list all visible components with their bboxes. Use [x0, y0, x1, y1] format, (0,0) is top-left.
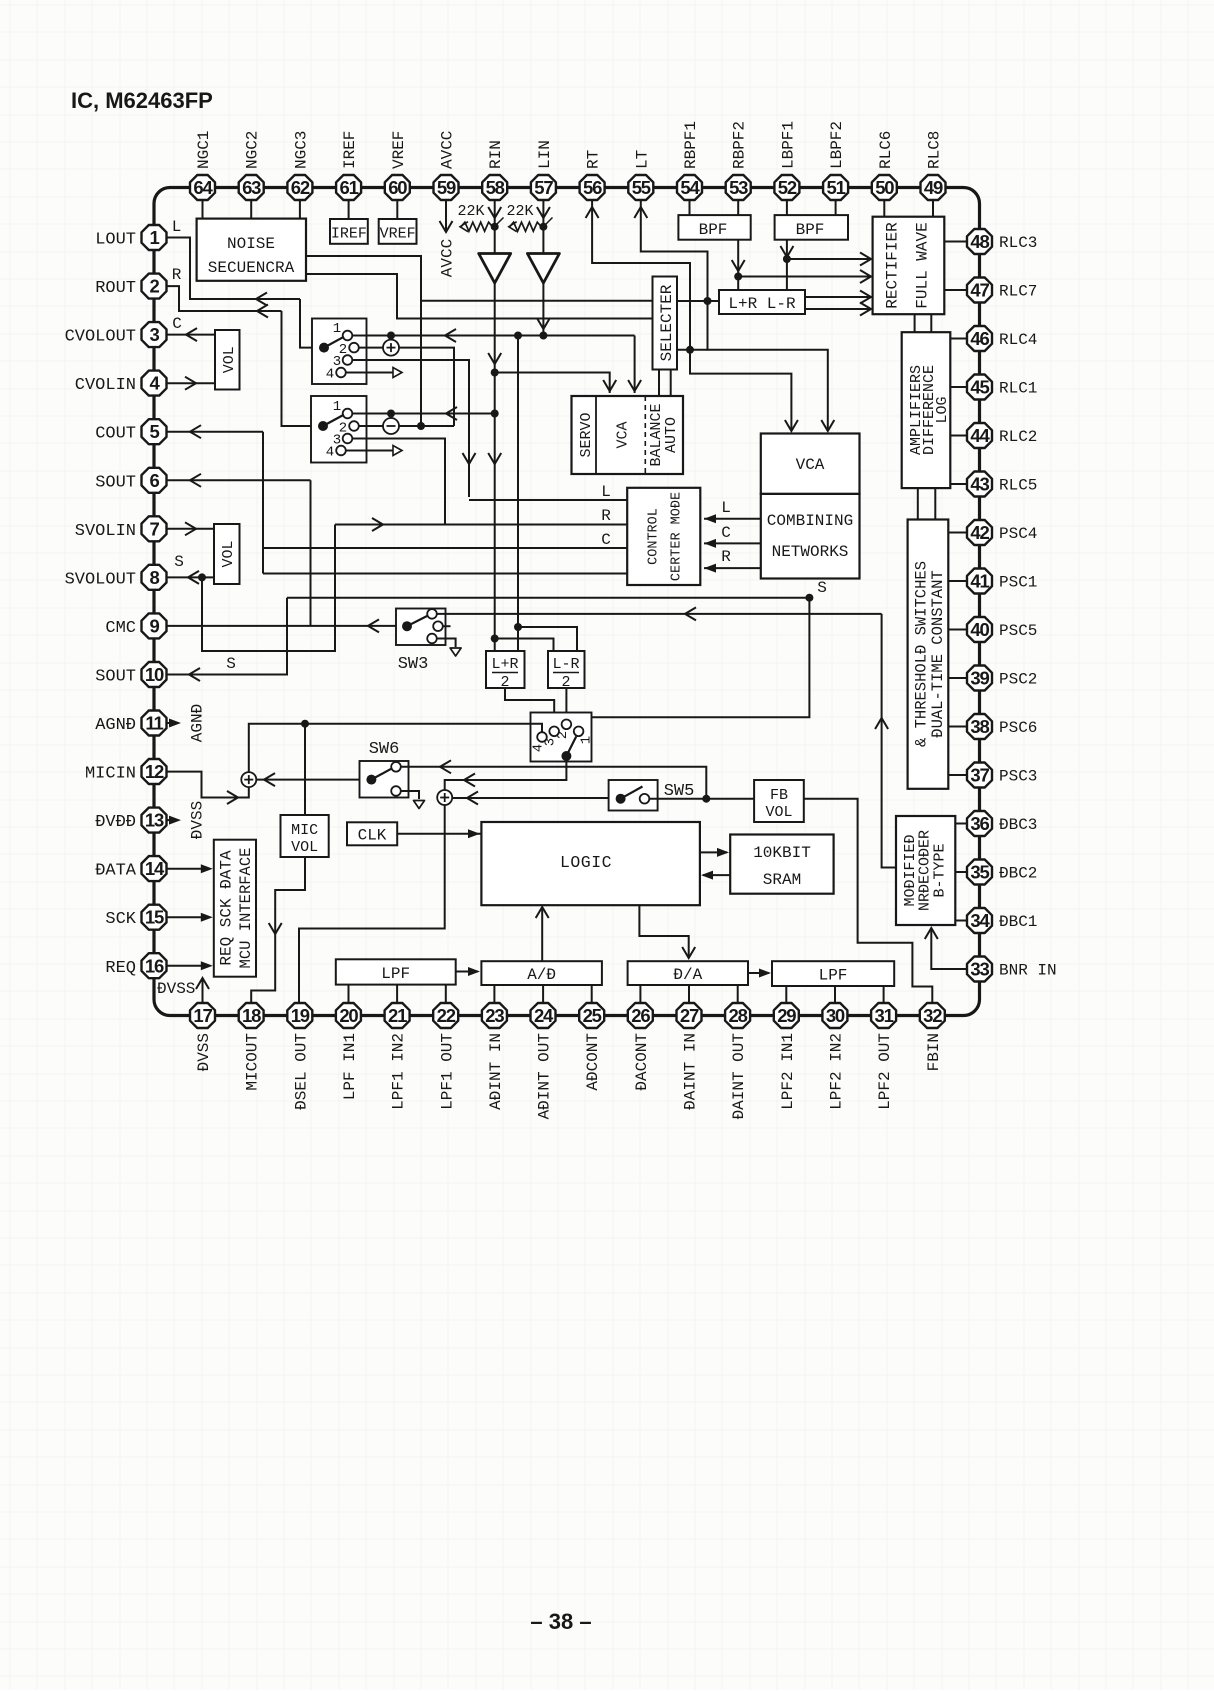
wire log amp to threshold switches 1 [917, 488, 919, 519]
pin 26 ĐACONT (bottom) [628, 1003, 653, 1091]
svg-text:50: 50 [875, 177, 894, 198]
svg-text:34: 34 [970, 910, 990, 931]
pin 20 LPF IN1 (bottom) [336, 1003, 361, 1100]
svg-text:AGNĐ: AGNĐ [189, 704, 207, 742]
pin 24 AĐINT OUT (bottom) [531, 1003, 556, 1119]
wire log amp to threshold switches 2 [934, 488, 936, 519]
svg-text:23: 23 [485, 1005, 504, 1026]
wire pin33 BNR IN to NR decoder [925, 928, 967, 969]
svg-text:RLC6: RLC6 [877, 131, 895, 169]
wire pin14 DATA to MCU interface [167, 864, 213, 873]
wire A/D to pin24 [542, 985, 544, 1003]
svg-text:LBPF1: LBPF1 [779, 121, 797, 169]
wire mode switch pole to mic mix [445, 756, 567, 790]
wire NR decoder out (to SW3 line) [875, 614, 896, 868]
svg-text:SECUENCRA: SECUENCRA [208, 259, 295, 277]
wire D/A to LPF2 [748, 969, 771, 978]
wire SW1 contact3 to control L [353, 360, 628, 500]
svg-text:ĐSEL OUT: ĐSEL OUT [292, 1033, 310, 1110]
svg-text:RLC7: RLC7 [999, 283, 1037, 301]
svg-text:PSC4: PSC4 [999, 525, 1037, 543]
svg-text:22K: 22K [506, 203, 533, 220]
svg-text:ĐVSS: ĐVSS [157, 980, 195, 998]
svg-text:RBPF1: RBPF1 [682, 121, 700, 169]
wire pin58 RIN down [488, 200, 501, 254]
svg-text:CVOLIN: CVOLIN [75, 376, 136, 395]
pin 44 RLC2 (right) [967, 423, 1037, 448]
pin 7 SVOLIN (left) [75, 516, 167, 541]
svg-text:42: 42 [970, 522, 989, 543]
svg-text:15: 15 [145, 907, 164, 928]
pin 14 ĐATA (left) [95, 856, 166, 881]
svg-text:LOGIC: LOGIC [560, 853, 612, 872]
svg-text:13: 13 [145, 810, 164, 831]
FB VOL block [754, 780, 804, 822]
pin 51 LBPF2 (top) [823, 121, 848, 200]
pin 27 ĐAINT IN (bottom) [677, 1003, 702, 1110]
wire noise out1 to selecter [306, 256, 653, 426]
svg-text:R: R [721, 548, 731, 566]
wire S line [287, 597, 809, 599]
D/A converter block [628, 961, 748, 985]
svg-text:14: 14 [145, 858, 165, 879]
svg-text:S: S [226, 655, 236, 673]
pin 54 RBPF1 (top) [677, 121, 702, 200]
svg-text:SW6: SW6 [369, 740, 400, 759]
svg-text:AĐCONT: AĐCONT [584, 1033, 602, 1091]
svg-text:LPF: LPF [381, 965, 410, 983]
pin 49 RLC8 (top) [921, 131, 946, 200]
pin 46 RLC4 (right) [967, 326, 1037, 351]
wire pin12 MICIN to mic sum [167, 772, 249, 804]
pin 19 ĐSEL OUT (bottom) [287, 1003, 312, 1110]
DVSS annotation pin17 [157, 978, 209, 1003]
wire L+R L-R out2 to rectifier [805, 303, 871, 316]
svg-text:NGC1: NGC1 [195, 131, 213, 169]
svg-text:5: 5 [149, 421, 159, 442]
svg-text:21: 21 [388, 1005, 407, 1026]
svg-text:L: L [172, 218, 182, 236]
wire svolout branch to control R [202, 525, 335, 652]
wire threshold switches to pin39 [948, 677, 967, 679]
pin 25 AĐCONT (bottom) [579, 1003, 604, 1091]
pin 55 LT (top) [628, 150, 653, 200]
combining networks block [761, 494, 860, 579]
svg-text:LPF2 OUT: LPF2 OUT [876, 1033, 894, 1110]
svg-text:7: 7 [149, 518, 159, 539]
svg-text:8: 8 [149, 567, 159, 588]
wire S to mode switch c1 [579, 579, 827, 727]
pin 40 PSC5 (right) [967, 617, 1037, 642]
svg-text:55: 55 [632, 177, 651, 198]
pin 52 LBPF1 (top) [774, 121, 799, 200]
wire pin8 SVOLOUT from volume [167, 553, 215, 584]
buffer amp A1 (RIN) [479, 254, 511, 284]
wire CLK to logic [397, 829, 481, 838]
wire SW5 to sum node S4 [452, 792, 608, 805]
wire BPF left out to L+R L-R and rectifier [780, 240, 871, 290]
svg-text:L-R: L-R [552, 656, 579, 673]
svg-text:– 38 –: – 38 – [530, 1609, 591, 1634]
wire D/A to pin26 [639, 985, 641, 1003]
pin 5 COUT (left) [95, 419, 166, 444]
svg-text:AGNĐ: AGNĐ [95, 716, 136, 735]
svg-text:ĐBC3: ĐBC3 [999, 816, 1037, 834]
svg-text:RT: RT [585, 150, 603, 169]
svg-text:61: 61 [340, 177, 359, 198]
wire LIN branch to sum-difference [514, 336, 577, 652]
svg-text:10: 10 [145, 664, 164, 685]
wire LPF1 to pin20 [348, 985, 350, 1003]
svg-text:AĐINT OUT: AĐINT OUT [536, 1033, 554, 1119]
svg-text:30: 30 [826, 1005, 845, 1026]
svg-text:17: 17 [193, 1005, 212, 1026]
svg-text:CLK: CLK [358, 827, 387, 845]
svg-text:RECTIFIER: RECTIFIER [884, 222, 902, 309]
svg-text:AUTO: AUTO [663, 417, 680, 453]
pin 15 SCK (left) [105, 905, 166, 930]
svg-text:16: 16 [145, 955, 164, 976]
wire NR decoder to pin35 [955, 871, 967, 873]
buffer amp A2 (LIN) [527, 254, 559, 284]
svg-text:29: 29 [777, 1005, 796, 1026]
summing node S3 mic (plus) [241, 772, 256, 787]
label SW5 [664, 782, 695, 801]
summing node S4 (plus) [437, 790, 452, 805]
svg-text:52: 52 [778, 177, 797, 198]
pin 32 FBIN (bottom) [920, 1003, 945, 1071]
wire sum S4 out to pin19 [299, 805, 445, 1003]
wire SW5 junction to SW6 contact [401, 760, 706, 798]
svg-text:36: 36 [970, 813, 989, 834]
svg-text:35: 35 [970, 862, 989, 883]
wire selecter out1 to L+R L-R [677, 300, 719, 302]
pin 38 PSC6 (right) [967, 714, 1037, 739]
LPF block (input) [336, 959, 456, 984]
wire logic to D/A [639, 905, 695, 958]
svg-text:LBPF2: LBPF2 [828, 121, 846, 169]
pin 23 AĐINT IN (bottom) [482, 1003, 507, 1110]
pin 57 LIN (top) [531, 140, 556, 200]
svg-text:LOUT: LOUT [95, 231, 136, 250]
svg-text:CMC: CMC [105, 619, 136, 638]
svg-text:4: 4 [326, 367, 334, 383]
pin 45 RLC1 (right) [967, 375, 1037, 400]
pin 60 VREF (top) [385, 131, 410, 200]
svg-text:LPF: LPF [819, 967, 848, 985]
wire NR decoder to pin36 [955, 823, 967, 825]
wire threshold switches to pin37 [948, 774, 967, 776]
svg-text:57: 57 [534, 177, 553, 198]
wire LPF2 to pin31 [883, 986, 885, 1003]
wire SW6 pole to mic sum [257, 773, 360, 786]
wire LIN buffered vertical [537, 283, 550, 336]
svg-text:53: 53 [729, 177, 748, 198]
LOGIC block [481, 822, 700, 905]
svg-text:62: 62 [291, 177, 310, 198]
pin 11 AGNĐ (left) [95, 711, 166, 736]
label SW6 [369, 740, 400, 759]
svg-text:RLC2: RLC2 [999, 428, 1037, 446]
IC body outline U1 M62463FP [154, 188, 980, 1016]
pin 16 REQ (left) [105, 953, 166, 978]
CLK block [347, 822, 397, 845]
A/D converter block [481, 961, 602, 985]
wire mic line to MIC VOL [304, 724, 306, 815]
wire SW2 contact4 stub [346, 446, 402, 456]
wire threshold switches to pin40 [948, 629, 967, 631]
MCU interface block [214, 840, 256, 977]
switch SW6 [360, 761, 420, 799]
svg-text:VCA: VCA [796, 456, 825, 474]
wire mic sum to mode switch c4 [249, 720, 542, 772]
pin 48 RLC3 (right) [967, 229, 1037, 254]
pin 3 CVOLOUT (left) [65, 322, 167, 347]
ground (SW6) [414, 801, 425, 809]
svg-text:12: 12 [145, 761, 164, 782]
wire log amp to pin43 RLC5 [950, 483, 967, 485]
wire threshold switches to pin41 [948, 580, 967, 582]
wire L+R L-R out1 to rectifier [805, 291, 871, 304]
wire threshold switches to pin42 [948, 532, 967, 534]
svg-text:PSC3: PSC3 [999, 768, 1037, 786]
svg-text:L: L [721, 499, 731, 517]
svg-text:Đ/A: Đ/A [673, 966, 702, 984]
pin 33 BNR IN (right) [967, 957, 1057, 982]
wire combining L to control [704, 499, 761, 523]
wire RT pin56 chain [586, 200, 798, 431]
wire R net pin2 ROUT to switch SW2 [167, 266, 312, 426]
svg-text:L+R: L+R [491, 656, 518, 673]
wire log amp to pin44 RLC2 [950, 435, 967, 437]
wire A/D to pin25 [591, 985, 593, 1003]
svg-text:SVOLOUT: SVOLOUT [65, 570, 136, 589]
svg-text:6: 6 [149, 470, 159, 491]
pin 12 MICIN (left) [85, 759, 167, 784]
svg-text:58: 58 [486, 177, 505, 198]
svg-text:& THRESHOLĐ SWITCHES: & THRESHOLĐ SWITCHES [913, 561, 931, 747]
svg-text:20: 20 [339, 1005, 358, 1026]
svg-text:LPF2 IN2: LPF2 IN2 [827, 1033, 845, 1110]
wire logic to sram [700, 848, 729, 857]
svg-text:64: 64 [193, 177, 213, 198]
svg-text:RLC5: RLC5 [999, 477, 1037, 495]
svg-text:46: 46 [970, 328, 989, 349]
svg-text:22K: 22K [457, 203, 484, 220]
svg-text:60: 60 [388, 177, 407, 198]
wire LPF2 to pin30 [834, 986, 836, 1003]
svg-text:2: 2 [555, 731, 571, 739]
svg-text:PSC6: PSC6 [999, 719, 1037, 737]
svg-text:LIN: LIN [536, 140, 554, 169]
wire selecter to servo 2 [670, 370, 672, 397]
wire pin63 to noise block [250, 200, 252, 219]
svg-text:26: 26 [631, 1005, 650, 1026]
pin 53 RBPF2 (top) [726, 121, 751, 200]
svg-text:COMBINING: COMBINING [767, 512, 853, 530]
svg-text:1: 1 [333, 399, 341, 415]
svg-text:SRAM: SRAM [763, 871, 801, 889]
svg-text:ĐVSS: ĐVSS [189, 801, 207, 839]
pin 17 ĐVSS (bottom) [190, 1003, 215, 1071]
pin 29 LPF2 IN1 (bottom) [774, 1003, 799, 1110]
svg-text:4: 4 [326, 445, 334, 461]
svg-text:RLC1: RLC1 [999, 380, 1037, 398]
svg-text:BPF: BPF [699, 221, 728, 239]
AGND annotation pin11 [167, 704, 207, 742]
svg-text:IREF: IREF [331, 226, 367, 243]
svg-text:SCK: SCK [105, 910, 136, 929]
volume block VOL (surround) [214, 524, 240, 584]
pin 61 IREF (top) [336, 131, 361, 200]
wire LPF1 to pin21 [396, 985, 398, 1003]
svg-text:IC, M62463FP: IC, M62463FP [71, 88, 213, 113]
wire selecter out2 [677, 349, 708, 351]
wire NR decoder to pin34 [955, 920, 967, 922]
svg-text:18: 18 [242, 1005, 261, 1026]
svg-text:PSC5: PSC5 [999, 622, 1037, 640]
switch SW3 [396, 609, 456, 648]
svg-text:ĐACONT: ĐACONT [633, 1033, 651, 1091]
wire pin61 to IREF [348, 200, 350, 219]
svg-text:VOL: VOL [291, 839, 318, 856]
pin 31 LPF2 OUT (bottom) [871, 1003, 896, 1110]
svg-text:IREF: IREF [341, 131, 359, 169]
pin 42 PSC4 (right) [967, 520, 1037, 545]
svg-text:CONTROL: CONTROL [647, 508, 662, 565]
BPF block (right) [678, 215, 750, 240]
log difference amplifiers block [902, 332, 951, 488]
svg-text:SW3: SW3 [398, 655, 429, 674]
svg-text:ĐVSS: ĐVSS [195, 1033, 213, 1071]
wire pin5 COUT / control C chain [167, 425, 628, 573]
pin 18 MICOUT (bottom) [239, 1003, 264, 1091]
svg-text:LPF1 OUT: LPF1 OUT [438, 1033, 456, 1110]
svg-text:LPF2 IN1: LPF2 IN1 [779, 1033, 797, 1110]
pin 37 PSC3 (right) [967, 763, 1037, 788]
svg-text:49: 49 [924, 177, 943, 198]
pin 63 NGC2 (top) [239, 131, 264, 200]
switch SW1 (4-position) [312, 319, 367, 385]
svg-text:ĐBC2: ĐBC2 [999, 865, 1037, 883]
svg-text:RLC8: RLC8 [926, 131, 944, 169]
svg-text:ĐATA: ĐATA [95, 862, 137, 881]
svg-text:24: 24 [534, 1005, 554, 1026]
svg-text:40: 40 [970, 619, 989, 640]
pin 21 LPF1 IN2 (bottom) [385, 1003, 410, 1110]
svg-text:SVOLIN: SVOLIN [75, 522, 136, 541]
svg-text:S: S [817, 579, 827, 597]
svg-text:1: 1 [579, 736, 595, 744]
ground (SW3) [450, 648, 461, 656]
wire SW2 contact1 line (RIN tap) [353, 407, 499, 420]
wire pin64 to noise block [202, 200, 204, 219]
svg-text:REQ: REQ [105, 959, 136, 978]
wire pin60 to VREF [396, 200, 398, 219]
wire pin53 to BPF [737, 200, 739, 215]
resistor R2 22K (LIN) [506, 203, 552, 232]
wire pin52 to BPF2 [786, 200, 788, 215]
pin 39 PSC2 (right) [967, 666, 1037, 691]
svg-text:1: 1 [149, 227, 159, 248]
pin 22 LPF1 OUT (bottom) [433, 1003, 458, 1110]
svg-text:COUT: COUT [95, 425, 136, 444]
svg-text:REQ SCK ĐATA: REQ SCK ĐATA [218, 850, 236, 966]
svg-text:MCU INTERFACE: MCU INTERFACE [237, 848, 255, 969]
pin 9 CMC (left) [105, 613, 166, 638]
svg-text:AĐINT IN: AĐINT IN [487, 1033, 505, 1110]
AVCC supply arrow pin59 [439, 200, 457, 277]
svg-text:27: 27 [680, 1005, 699, 1026]
pin 30 LPF2 IN2 (bottom) [822, 1003, 847, 1110]
svg-text:C: C [172, 315, 182, 333]
svg-text:1: 1 [333, 321, 341, 337]
wire L-R/2 out to mode switch c2 [565, 688, 567, 720]
svg-text:54: 54 [680, 177, 700, 198]
wire pin50 to rectifier [883, 200, 885, 217]
svg-text:SOUT: SOUT [95, 667, 136, 686]
summing node S1 (plus) [383, 340, 399, 356]
svg-text:NGC3: NGC3 [292, 131, 310, 169]
resistor R1 22K (RIN) [457, 203, 503, 232]
wire pin6 SOUT chain [167, 474, 311, 626]
wire rectifier to pin47 RLC7 [944, 289, 967, 291]
volume block VOL (center) [215, 330, 240, 390]
VREF block [379, 219, 417, 244]
label C control input [601, 531, 611, 549]
svg-text:FULL WAVE: FULL WAVE [914, 222, 932, 308]
svg-text:LPF1 IN2: LPF1 IN2 [390, 1033, 408, 1110]
wire pin62 to noise block [299, 200, 301, 219]
DVSS annotation pin13 [167, 801, 207, 839]
pin 62 NGC3 (top) [287, 131, 312, 200]
svg-text:PSC2: PSC2 [999, 671, 1037, 689]
svg-text:VOL: VOL [220, 540, 237, 567]
svg-text:RLC4: RLC4 [999, 331, 1037, 349]
svg-text:SELECTER: SELECTER [658, 284, 676, 361]
wire SW1 contact2 to plus node [359, 347, 383, 349]
svg-text:SOUT: SOUT [95, 473, 136, 492]
wire LPF1 to pin22 [445, 985, 447, 1003]
svg-text:ĐAINT OUT: ĐAINT OUT [730, 1033, 748, 1119]
wire pin54 to BPF [689, 200, 691, 215]
wire A/D to pin23 [493, 985, 495, 1003]
IREF block [330, 219, 368, 244]
svg-text:25: 25 [583, 1005, 602, 1026]
svg-text:VOL: VOL [221, 346, 238, 373]
pin 10 SOUT (left) [95, 662, 166, 687]
svg-text:LPF IN1: LPF IN1 [341, 1033, 359, 1100]
modified NR decoder block [896, 816, 955, 925]
wire SW2 contact2 to minus node [359, 425, 383, 427]
wire rectifier to log amp 1 [914, 314, 916, 332]
svg-text:10KBIT: 10KBIT [753, 844, 811, 862]
wire LT pin55 chain [634, 200, 834, 431]
svg-text:AVCC: AVCC [439, 131, 457, 169]
selecter block [653, 277, 678, 370]
wire pin49 to rectifier [932, 200, 934, 217]
svg-text:CVOLOUT: CVOLOUT [65, 328, 136, 347]
svg-text:FB: FB [770, 787, 788, 804]
switch SW2 (4-position) [311, 396, 367, 463]
svg-text:11: 11 [145, 713, 163, 734]
svg-text:37: 37 [970, 765, 989, 786]
wire L net pin1 LOUT to switch SW1 [167, 218, 313, 348]
wire plus node out [399, 348, 454, 426]
svg-text:NGC2: NGC2 [244, 131, 262, 169]
wire A/D to logic [536, 907, 549, 961]
svg-text:ROUT: ROUT [95, 279, 136, 298]
